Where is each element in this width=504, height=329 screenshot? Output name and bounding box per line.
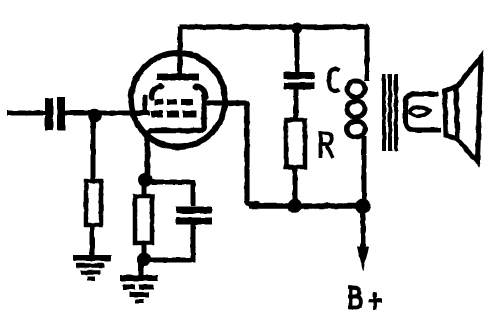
wire junction down to R1	[91, 117, 96, 182]
node grid junction	[88, 109, 102, 123]
capacitor C1 right plate	[57, 97, 65, 130]
wire top to C	[295, 29, 300, 73]
speaker LS1 voice coil inner eye	[410, 107, 430, 116]
capacitor C2 top plate	[176, 207, 212, 214]
tube V1 envelope	[131, 53, 225, 147]
wire node to ground	[139, 262, 144, 276]
transformer T1 primary lead top	[365, 25, 367, 81]
resistor R2 cathode bias	[135, 196, 152, 243]
speaker LS1 voice coil outer	[406, 94, 442, 130]
capacitor C bottom plate	[284, 83, 315, 90]
wire C2 bottom to node	[146, 224, 193, 260]
tube V1 right bracket	[202, 95, 207, 122]
resistor R	[286, 120, 305, 167]
tube V1 left beam plate	[151, 86, 160, 98]
ground under R1	[73, 258, 111, 279]
wire cathode junction down to R2	[142, 184, 147, 196]
wire cathode junction to C2 top	[148, 182, 193, 206]
transformer T1 primary lead bottom	[362, 136, 367, 203]
wire bottom rail	[249, 203, 368, 209]
tube V1 right beam plate	[197, 86, 206, 98]
ground under cathode	[120, 278, 158, 301]
B+ arrow	[361, 209, 366, 250]
transformer T1 core	[384, 74, 396, 151]
node bottom cathode junction	[137, 252, 151, 266]
capacitor C1 input coupling, left plate	[45, 98, 53, 130]
tube V1 anode plate bar	[157, 74, 199, 81]
wire R2 to bottom node	[142, 243, 147, 258]
tube V1 screen grid dashes	[154, 99, 193, 105]
node R bottom junction	[288, 199, 303, 214]
wire screen lead from tube	[205, 103, 260, 204]
node top junction	[292, 23, 303, 34]
tube V1 anode lead	[178, 27, 183, 74]
wire R to bottom rail	[293, 167, 298, 205]
speaker LS1 horn	[456, 57, 481, 162]
tube V1 grid left bracket	[143, 95, 148, 114]
wire plate top run	[180, 24, 365, 29]
wire R1 to ground	[90, 225, 95, 257]
capacitor C top plate	[284, 72, 315, 79]
tube V1 cathode	[148, 107, 205, 180]
speaker LS1 frame	[445, 87, 458, 140]
wire input lead	[7, 111, 46, 116]
wire C to R	[294, 88, 299, 120]
node transformer bottom junction	[356, 199, 371, 214]
transformer T1 primary winding	[347, 81, 365, 97]
node cathode junction	[138, 173, 152, 187]
resistor R1 grid leak	[86, 181, 101, 225]
wire C1 to grid of tube	[65, 111, 150, 116]
label R	[319, 132, 334, 159]
label C	[329, 69, 340, 91]
tube V1 control grid dashes	[151, 111, 196, 118]
label B+	[348, 287, 382, 310]
capacitor C2 bottom plate	[176, 218, 212, 225]
